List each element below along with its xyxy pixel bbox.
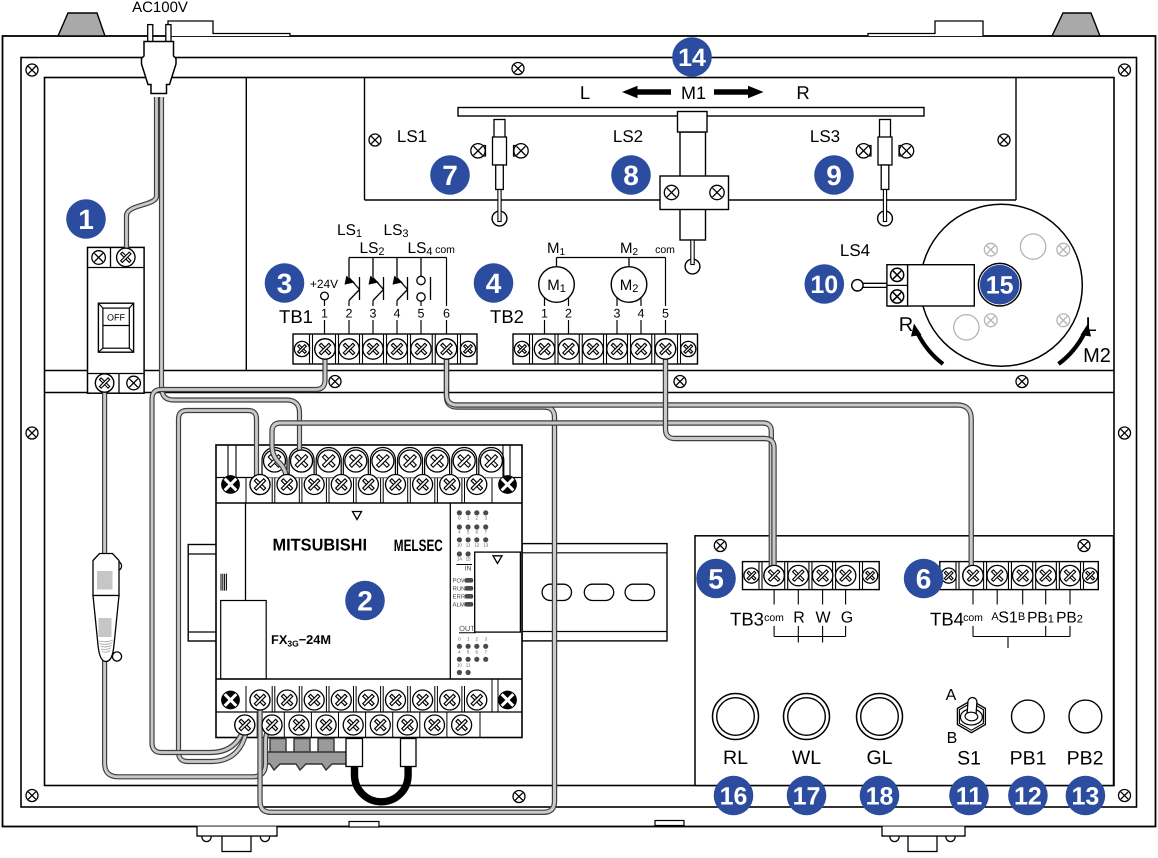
- svg-text:RUN: RUN: [453, 586, 466, 593]
- svg-text:3: 3: [370, 307, 377, 321]
- svg-text:com: com: [963, 612, 983, 624]
- svg-text:10: 10: [457, 543, 463, 548]
- svg-text:IN: IN: [465, 566, 472, 573]
- svg-text:15: 15: [466, 557, 472, 562]
- svg-text:6: 6: [443, 307, 450, 321]
- svg-text:16: 16: [720, 783, 748, 811]
- svg-text:com: com: [655, 244, 675, 256]
- svg-text:ERR: ERR: [453, 594, 466, 601]
- svg-text:12: 12: [474, 543, 480, 548]
- svg-text:10: 10: [457, 663, 463, 668]
- svg-text:2: 2: [565, 307, 572, 321]
- svg-text:com: com: [435, 244, 455, 256]
- svg-text:FX3G−24M: FX3G−24M: [271, 632, 331, 649]
- svg-text:2: 2: [346, 307, 353, 321]
- svg-text:TB4: TB4: [930, 609, 964, 630]
- svg-text:LS2: LS2: [613, 127, 643, 146]
- svg-text:15: 15: [986, 272, 1014, 300]
- svg-text:11: 11: [956, 783, 983, 811]
- svg-text:13: 13: [1071, 783, 1099, 811]
- svg-text:com: com: [764, 612, 784, 624]
- svg-text:M2: M2: [1083, 345, 1111, 367]
- svg-text:M1: M1: [681, 83, 706, 103]
- svg-text:13: 13: [483, 543, 489, 548]
- svg-text:W: W: [815, 610, 831, 627]
- svg-text:3: 3: [277, 268, 293, 299]
- svg-text:LS1: LS1: [397, 127, 427, 146]
- svg-text:11: 11: [466, 663, 471, 668]
- svg-text:4: 4: [638, 307, 645, 321]
- svg-text:OFF: OFF: [107, 313, 125, 323]
- svg-text:17: 17: [793, 783, 821, 811]
- svg-text:1: 1: [78, 204, 94, 235]
- svg-text:TB3: TB3: [730, 609, 764, 630]
- svg-text:G: G: [841, 610, 853, 627]
- svg-text:1: 1: [541, 307, 548, 321]
- svg-text:5: 5: [708, 564, 724, 595]
- svg-text:WL: WL: [792, 747, 821, 769]
- svg-text:14: 14: [678, 44, 706, 72]
- svg-text:AC100V: AC100V: [132, 0, 188, 16]
- svg-text:ALM: ALM: [453, 602, 465, 609]
- svg-text:S1: S1: [957, 748, 981, 770]
- svg-text:RL: RL: [723, 747, 748, 769]
- svg-text:TB1: TB1: [279, 306, 313, 327]
- svg-text:9: 9: [826, 160, 842, 191]
- svg-text:A: A: [946, 687, 957, 704]
- svg-text:B: B: [947, 730, 958, 747]
- svg-text:LS3: LS3: [810, 127, 840, 146]
- svg-text:4: 4: [486, 268, 502, 299]
- svg-text:PB2: PB2: [1067, 748, 1104, 770]
- svg-text:6: 6: [916, 564, 932, 595]
- svg-text:+24V: +24V: [310, 277, 338, 291]
- svg-text:10: 10: [810, 271, 838, 299]
- svg-text:1: 1: [321, 307, 328, 321]
- svg-text:5: 5: [418, 307, 425, 321]
- svg-text:2: 2: [357, 586, 373, 617]
- svg-text:14: 14: [457, 557, 463, 562]
- svg-text:L: L: [1085, 314, 1096, 336]
- svg-text:MITSUBISHI: MITSUBISHI: [273, 536, 368, 555]
- svg-text:B: B: [1018, 611, 1025, 623]
- svg-text:MELSEC: MELSEC: [394, 537, 443, 555]
- svg-text:8: 8: [623, 160, 639, 191]
- svg-text:5: 5: [662, 307, 669, 321]
- svg-text:R: R: [796, 82, 809, 103]
- svg-text:S1: S1: [998, 610, 1018, 627]
- svg-text:TB2: TB2: [490, 306, 524, 327]
- svg-text:18: 18: [866, 783, 894, 811]
- svg-text:R: R: [899, 314, 913, 336]
- svg-text:LS4: LS4: [840, 241, 870, 260]
- svg-text:11: 11: [466, 543, 471, 548]
- svg-text:4: 4: [394, 307, 401, 321]
- svg-text:R: R: [793, 610, 805, 627]
- svg-text:3: 3: [614, 307, 621, 321]
- svg-text:12: 12: [1014, 783, 1042, 811]
- svg-text:7: 7: [442, 160, 458, 191]
- svg-text:L: L: [580, 82, 590, 103]
- svg-text:OUT: OUT: [459, 624, 475, 633]
- svg-text:GL: GL: [866, 747, 892, 769]
- svg-text:PB1: PB1: [1010, 748, 1047, 770]
